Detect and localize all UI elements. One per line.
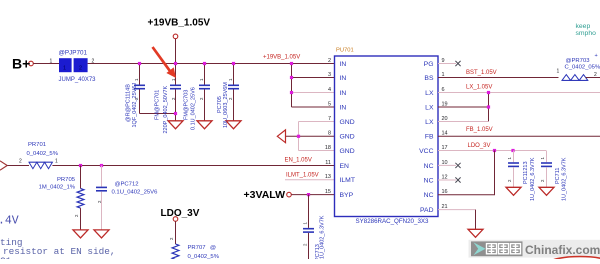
svg-text:2: 2 — [594, 72, 597, 78]
svg-text:BS: BS — [424, 75, 434, 82]
svg-text:2: 2 — [19, 158, 22, 164]
svg-text:keep: keep — [576, 23, 591, 30]
svg-text:ILMT: ILMT — [340, 177, 355, 184]
svg-text:@PJP701: @PJP701 — [59, 50, 88, 57]
svg-text:PR701: PR701 — [28, 142, 46, 148]
svg-text:PC11213: PC11213 — [523, 161, 529, 184]
svg-text:IN: IN — [340, 61, 347, 68]
svg-text:FM@PC703: FM@PC703 — [184, 90, 190, 120]
svg-text:10U_0603_25V6M: 10U_0603_25V6M — [223, 82, 229, 128]
svg-text:EN: EN — [340, 163, 350, 170]
svg-text:3: 3 — [328, 72, 331, 78]
svg-text:EN_1.05V: EN_1.05V — [285, 157, 312, 163]
svg-text:15: 15 — [325, 189, 331, 195]
svg-text:@R@PC1114B: @R@PC1114B — [126, 84, 132, 122]
svg-text:4: 4 — [328, 87, 331, 93]
svg-text:PR705: PR705 — [57, 177, 76, 183]
svg-text:1: 1 — [55, 158, 58, 164]
svg-text:IN: IN — [340, 104, 347, 111]
svg-text:GND: GND — [340, 119, 355, 126]
svg-text:7: 7 — [328, 116, 331, 122]
svg-text:LDO_3V: LDO_3V — [161, 208, 200, 219]
svg-text:@PC712: @PC712 — [115, 181, 139, 187]
svg-text:5: 5 — [328, 101, 331, 107]
svg-text:2: 2 — [328, 58, 331, 64]
svg-text:PR707: PR707 — [188, 245, 206, 251]
svg-text:1U_0402_6.3V7K: 1U_0402_6.3V7K — [530, 157, 536, 201]
svg-text:PAD: PAD — [420, 207, 434, 214]
svg-text:NC: NC — [424, 177, 434, 184]
svg-text:1U_0402_6.3V7K: 1U_0402_6.3V7K — [561, 157, 567, 201]
svg-text:.4V: .4V — [0, 215, 19, 228]
svg-text:@: @ — [210, 245, 216, 251]
svg-text:IN: IN — [340, 75, 347, 82]
svg-text:LX: LX — [425, 104, 434, 111]
svg-text:BYP: BYP — [340, 192, 354, 199]
svg-text:SY8286RAC_QFN20_3X3: SY8286RAC_QFN20_3X3 — [356, 218, 429, 225]
svg-text:PG: PG — [424, 61, 434, 68]
svg-text:resistor at EN side,: resistor at EN side, — [3, 246, 116, 257]
svg-text:FB_1.05V: FB_1.05V — [466, 127, 493, 133]
svg-text:0_0402_5%: 0_0402_5% — [27, 151, 59, 157]
svg-text:NC: NC — [424, 192, 434, 199]
svg-text:13: 13 — [325, 174, 331, 180]
svg-text:C1: C1 — [0, 256, 12, 260]
svg-text:LX: LX — [425, 90, 434, 97]
svg-text:0_0402_5%: 0_0402_5% — [188, 254, 220, 259]
svg-text:220P_0402_50V7K: 220P_0402_50V7K — [163, 85, 169, 133]
svg-text:LDO_3V: LDO_3V — [468, 143, 491, 149]
svg-text:1: 1 — [557, 69, 560, 75]
svg-text:11: 11 — [325, 160, 331, 166]
svg-text:ILMT_1.05V: ILMT_1.05V — [286, 173, 319, 179]
svg-text:Chinafix.com: Chinafix.com — [525, 243, 600, 257]
svg-text:+3VALW: +3VALW — [244, 189, 286, 201]
svg-text:0.1U_0402_25V6: 0.1U_0402_25V6 — [112, 190, 159, 196]
svg-text:PU701: PU701 — [336, 48, 354, 54]
svg-text:NC: NC — [424, 163, 434, 170]
svg-text:GND: GND — [340, 148, 355, 155]
svg-text:1M_0402_1%: 1M_0402_1% — [39, 184, 76, 190]
svg-text:8: 8 — [328, 131, 331, 137]
svg-text:+19VB_1.05V: +19VB_1.05V — [263, 54, 300, 60]
svg-text:C_0402_05%: C_0402_05% — [565, 64, 600, 70]
svg-text:1U_0402_6.3V7K: 1U_0402_6.3V7K — [320, 215, 326, 259]
svg-text:PC711: PC711 — [555, 168, 561, 184]
svg-text:BST_1.05V: BST_1.05V — [466, 70, 497, 76]
svg-text:1: 1 — [50, 58, 53, 64]
svg-text:0.1U_0402_25V6: 0.1U_0402_25V6 — [191, 87, 197, 130]
svg-text:@PR703: @PR703 — [566, 58, 591, 64]
svg-text:18: 18 — [325, 145, 331, 151]
svg-text:2: 2 — [92, 58, 95, 64]
svg-text:IN: IN — [340, 90, 347, 97]
svg-text:1: 1 — [63, 65, 66, 71]
svg-text:FB: FB — [425, 134, 434, 141]
svg-text:B+: B+ — [12, 56, 30, 72]
svg-text:GND: GND — [340, 134, 355, 141]
svg-text:smpho: smpho — [576, 30, 597, 37]
svg-text:1QF_0402_25V6J: 1QF_0402_25V6J — [132, 83, 138, 128]
svg-text:+19VB_1.05V: +19VB_1.05V — [148, 17, 211, 28]
svg-text:JUMP_40X73: JUMP_40X73 — [59, 77, 97, 83]
svg-text:LX_1.05V: LX_1.05V — [466, 85, 492, 91]
svg-text:VCC: VCC — [419, 148, 433, 155]
svg-text:FM@PC701: FM@PC701 — [155, 90, 161, 120]
svg-text:LX: LX — [425, 119, 434, 126]
svg-text:2: 2 — [79, 65, 82, 71]
svg-text:+: + — [595, 53, 598, 59]
